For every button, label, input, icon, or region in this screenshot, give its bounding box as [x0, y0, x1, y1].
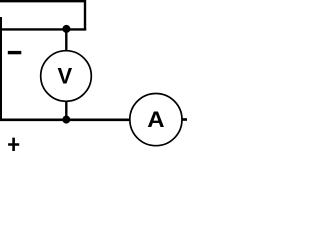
- wire from voltmeter to lower junction: [65, 101, 67, 120]
- svg-text:A: A: [147, 107, 164, 132]
- voltmeter V1 circle: [41, 51, 92, 102]
- wire top horizontal of component box: [0, 0, 86, 2]
- svg-text:V: V: [57, 63, 72, 88]
- label minus terminal: [8, 51, 21, 54]
- ammeter A1 circle: [130, 94, 182, 146]
- node junction dot upper: [62, 25, 70, 33]
- wire stub right of ammeter: [182, 118, 188, 121]
- wire bottom horizontal to ammeter: [0, 119, 129, 122]
- node junction dot lower: [62, 116, 70, 124]
- wire bottom horizontal of component box: [0, 28, 86, 30]
- wire from upper junction to voltmeter: [65, 29, 67, 51]
- wire left vertical (to off-screen supply): [0, 17, 2, 121]
- label plus terminal: [8, 138, 19, 151]
- wire right vertical of component box: [84, 0, 86, 31]
